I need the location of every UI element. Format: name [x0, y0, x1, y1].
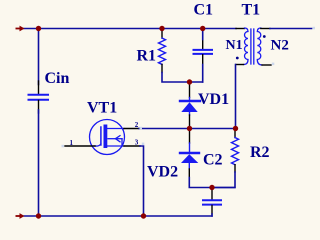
capacitor C2 pin 1: [211, 189, 213, 200]
capacitor C1: [194, 50, 213, 54]
transformer T1 core: [251, 29, 254, 64]
wire C2 bottom to rail: [211, 214, 213, 216]
wire C1 bottom to junction: [202, 65, 204, 83]
wire VD2 bottom to C2 junction: [189, 178, 235, 188]
svg-text:R1: R1: [137, 48, 157, 65]
resistor R2 pin 2: [234, 165, 236, 172]
svg-text:T1: T1: [242, 2, 261, 19]
T1 polarity dot N2: [263, 35, 266, 38]
svg-text:VT1: VT1: [87, 100, 117, 117]
wire Cin bottom to rail: [38, 110, 40, 216]
T1 polarity dot N1: [236, 57, 239, 60]
resistor R1: [159, 38, 166, 64]
wire N2 top output: [270, 28, 312, 30]
capacitor C1 pin 1: [202, 40, 204, 50]
wire drain horizontal: [139, 128, 236, 130]
wire N1 bottom to drain junction: [235, 65, 237, 129]
junction R1 top node: [159, 26, 164, 31]
capacitor C2: [203, 200, 221, 204]
resistor R2 pin 1: [234, 131, 236, 138]
wire C1 top: [202, 29, 204, 40]
diode VD1 pin 2: [189, 115, 191, 127]
svg-text:VD2: VD2: [147, 164, 178, 181]
resistor R1 pin 2: [161, 64, 163, 72]
wire bottom rail: [24, 215, 212, 217]
VT1 pin 2 drain lead: [124, 128, 139, 130]
svg-text:3: 3: [135, 139, 139, 147]
resistor R2: [232, 138, 239, 165]
wire left vertical (input bus): [38, 29, 40, 85]
diode VD2: [180, 143, 199, 169]
transistor VT1 (N-MOSFET): [90, 120, 125, 155]
diode VD2 pin 2: [188, 169, 190, 178]
junction source bottom node: [141, 213, 146, 218]
pin hotspot marks: [62, 27, 316, 148]
svg-text:N1: N1: [226, 38, 243, 53]
junction R1-C1 node: [187, 79, 192, 84]
transformer T1 winding N2: [257, 28, 262, 65]
junction C2 top node: [209, 185, 214, 190]
capacitor C2 pin 2: [211, 205, 213, 214]
svg-text:R2: R2: [250, 144, 270, 161]
junction drain-VD1 node: [187, 126, 192, 131]
transformer T1 secondary pin lead bottom: [262, 64, 271, 66]
svg-text:C2: C2: [203, 152, 223, 169]
wire source to bottom rail: [140, 146, 144, 216]
VT1 pin 3 source lead: [124, 145, 140, 147]
capacitor Cin pin 2: [38, 101, 40, 114]
svg-text:N2: N2: [271, 37, 289, 53]
transformer T1 winding N1: [244, 28, 249, 65]
wire R1 bottom to junction: [162, 73, 203, 83]
junction top-left node: [36, 26, 41, 31]
diode VD2 pin 1: [189, 131, 191, 144]
port arrow input bottom: [16, 213, 25, 219]
capacitor Cin pin 1: [38, 81, 40, 94]
capacitor Cin: [29, 95, 49, 100]
wire R2 bottom to C2 junction: [212, 172, 235, 188]
resistor R1 pin 1: [161, 30, 163, 38]
diode VD1: [180, 98, 200, 116]
junction Cin bottom node: [36, 213, 41, 218]
diode VD1 pin 1: [189, 82, 191, 98]
svg-text:1: 1: [70, 139, 74, 147]
port arrow input top: [16, 26, 25, 32]
transformer T1 primary pin lead top: [236, 28, 245, 30]
svg-text:Cin: Cin: [45, 70, 70, 87]
transformer T1 secondary pin lead top: [261, 28, 270, 30]
capacitor C1 pin 2: [202, 55, 204, 65]
wire top rail: [24, 28, 237, 30]
svg-text:VD1: VD1: [198, 91, 229, 108]
junction C1 top node: [200, 26, 205, 31]
VT1 pin 1 gate lead: [65, 145, 95, 147]
svg-text:C1: C1: [194, 2, 214, 19]
transformer T1 primary pin lead bottom: [236, 64, 244, 66]
junction drain-R2 node: [233, 126, 238, 131]
